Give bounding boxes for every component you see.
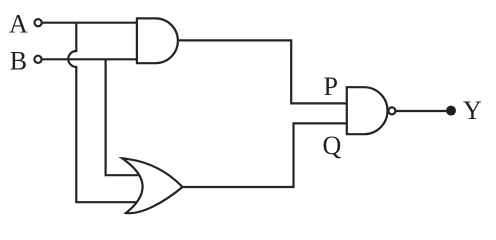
svg-text:Q: Q bbox=[323, 131, 342, 160]
svg-text:P: P bbox=[324, 72, 338, 101]
svg-text:B: B bbox=[10, 46, 27, 75]
svg-text:A: A bbox=[9, 10, 28, 39]
svg-text:Y: Y bbox=[463, 96, 482, 125]
